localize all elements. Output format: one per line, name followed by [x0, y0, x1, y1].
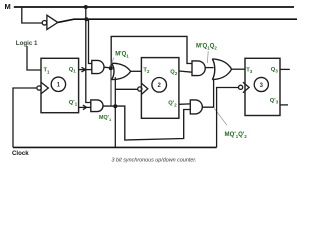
- arrowhead on Q1 wire: [81, 67, 85, 72]
- flip-flop 2 number circle: [152, 78, 167, 93]
- FF3 clock triangle: [243, 82, 249, 93]
- svg-text:M'Q1: M'Q1: [115, 52, 129, 59]
- wire stub below dot A: [110, 68, 112, 106]
- inverter input bubble: [42, 21, 47, 26]
- FF3 clock bubble: [239, 85, 243, 89]
- flip-flop U2 box (T1): [41, 58, 79, 112]
- svg-text:MQ'1: MQ'1: [99, 115, 112, 122]
- wire clock bus: [13, 146, 217, 148]
- clock wire to FF1: [13, 88, 37, 147]
- clock riser FF3: [217, 88, 239, 148]
- wire Q'1 to AND2: [79, 106, 91, 108]
- svg-text:Q3: Q3: [271, 67, 279, 74]
- svg-text:Q'3: Q'3: [270, 98, 279, 105]
- wire Q1 to AND1: [79, 69, 92, 71]
- wire M'Q1 over FF2: [111, 36, 192, 68]
- svg-text:T3: T3: [246, 67, 253, 74]
- svg-text:Q'2: Q'2: [168, 101, 177, 108]
- wire Q'2 to AND4: [179, 103, 190, 105]
- svg-text:T2: T2: [143, 67, 150, 74]
- junction dot M' tap: [84, 17, 88, 21]
- wire AND2 output to under-route: [103, 106, 190, 140]
- wire OR2 to T3: [232, 68, 245, 70]
- wire M bus top: [14, 6, 294, 8]
- wire M drop to inverter: [22, 7, 42, 23]
- wire M' tap down to AND1: [89, 19, 93, 63]
- FF1 clock bubble: [37, 86, 41, 90]
- junction dot B: [113, 104, 117, 108]
- wire M tap down to AND2: [86, 7, 91, 103]
- junction dot A: [109, 66, 113, 70]
- leader M'Q1Q2: [206, 51, 209, 63]
- wire Q3 output stub: [280, 68, 290, 70]
- svg-text:Q1: Q1: [69, 67, 77, 74]
- flip-flop U3 box (T2): [141, 58, 179, 119]
- wire Logic 1 to T1: [27, 46, 41, 70]
- wire Q'3 output stub: [280, 104, 288, 106]
- AND gate G5 (MQ'1Q'2): [190, 100, 202, 114]
- wire OR1 to T2: [131, 70, 142, 72]
- inverter U1 triangle: [47, 15, 58, 29]
- svg-text:Clock: Clock: [12, 150, 29, 157]
- flip-flop 3 number circle: [254, 77, 268, 91]
- svg-text:Logic 1: Logic 1: [16, 40, 38, 47]
- wire M' bus: [58, 19, 297, 22]
- wire OR1 lower input / clock riser FF2: [114, 77, 116, 147]
- wire Q2 to AND3: [179, 71, 192, 72]
- svg-text:MQ'1Q'2: MQ'1Q'2: [225, 131, 248, 139]
- wire AND1 output: [104, 66, 111, 69]
- flip-flop U4 box (T3): [245, 58, 280, 115]
- svg-text:M'Q1Q2: M'Q1Q2: [196, 43, 217, 51]
- wire AND3 output: [205, 67, 213, 69]
- arrowhead on Q'1 wire: [83, 105, 87, 110]
- OR gate G2 (T2): [112, 63, 131, 79]
- svg-text:3 bit synchronous up/down coun: 3 bit synchronous up/down counter.: [112, 158, 197, 164]
- AND gate G1 (M'Q1): [92, 60, 104, 73]
- leader MQ'1Q'2: [214, 108, 227, 125]
- svg-text:M: M: [5, 2, 11, 11]
- AND gate G4 (M'Q1Q2): [192, 61, 205, 76]
- clock branch to FF2: [115, 88, 137, 90]
- flip-flop 1 number circle: [51, 77, 65, 91]
- OR gate G6 (T3): [212, 59, 231, 80]
- leader M'Q1: [109, 58, 114, 67]
- AND gate G3 (MQ'1): [91, 100, 103, 112]
- FF2 clock bubble: [138, 87, 142, 91]
- svg-text:T1: T1: [44, 68, 51, 75]
- junction dot M tap: [84, 5, 88, 9]
- svg-text:Q'1: Q'1: [69, 100, 78, 107]
- svg-text:Q2: Q2: [170, 69, 178, 76]
- FF1 clock triangle: [41, 82, 48, 93]
- wire AND4 output to OR2: [202, 77, 213, 108]
- FF2 clock triangle: [142, 83, 148, 94]
